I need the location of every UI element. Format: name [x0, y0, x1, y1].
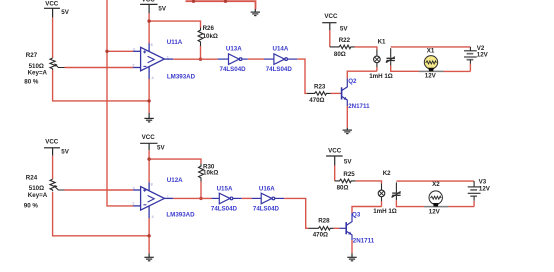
- op-amp U11A: [133, 43, 173, 79]
- svg-text:5V: 5V: [344, 159, 352, 166]
- svg-text:4: 4: [152, 215, 154, 219]
- svg-text:U11A: U11A: [167, 39, 183, 46]
- svg-text:80Ω: 80Ω: [334, 51, 346, 58]
- wire U16A output to R28: [284, 198, 308, 228]
- svg-text:R28: R28: [318, 217, 330, 224]
- wire R23 to Q2 base: [331, 92, 341, 94]
- relay K2 contact: [392, 182, 401, 200]
- svg-text:470Ω: 470Ω: [309, 97, 324, 104]
- svg-text:Key=A: Key=A: [28, 69, 48, 76]
- wire VCC3 to R22: [329, 30, 331, 47]
- svg-text:R27: R27: [26, 52, 38, 59]
- power VCC6 (R25 supply): [326, 156, 343, 166]
- svg-text:8: 8: [151, 43, 153, 47]
- svg-text:5V: 5V: [158, 6, 166, 13]
- svg-text:Q2: Q2: [348, 78, 357, 85]
- svg-text:R25: R25: [343, 171, 355, 178]
- wire lamp X2 to V3 bottom: [448, 206, 474, 208]
- wire K1 contact bottom to lamp: [391, 66, 419, 72]
- lamp X2: [424, 206, 449, 208]
- wire R28 to Q3 base: [334, 227, 340, 229]
- wire U11A pin3 stub from bus: [107, 50, 133, 52]
- ground under U11A pin4: [148, 79, 150, 113]
- wire VCC6 to R25: [334, 166, 336, 181]
- svg-text:12V: 12V: [477, 52, 489, 59]
- svg-text:12V: 12V: [429, 208, 441, 215]
- power VCC4 (R24 supply): [44, 148, 60, 156]
- potentiometer R24: [50, 179, 65, 191]
- relay K1 contact: [386, 48, 395, 65]
- power VCC2 (U11A supply, clipped at top): [140, 4, 157, 13]
- inverter U15A: [212, 193, 242, 204]
- battery V3: [468, 181, 481, 201]
- node junction R26/output: [199, 58, 202, 61]
- inverter U14A: [264, 54, 297, 65]
- transistor Q2: [340, 79, 347, 107]
- ground symbol U11A: [144, 113, 153, 122]
- svg-text:470Ω: 470Ω: [313, 232, 328, 239]
- contact K1 arrowhead: [386, 61, 389, 63]
- svg-text:V3: V3: [479, 179, 487, 186]
- ground symbol U12A: [144, 253, 153, 260]
- resistor R26: [198, 28, 203, 47]
- wire R27 wiper to U11A pin2: [65, 67, 134, 69]
- wire VCC2 branch to R26 top: [149, 21, 200, 27]
- svg-text:R26: R26: [203, 25, 215, 32]
- wire VCC5 down to U12A pin8: [148, 150, 150, 182]
- wire U15A to U16A: [242, 197, 252, 199]
- resistor R23: [307, 92, 331, 96]
- node junction VCC2/R26: [147, 19, 150, 22]
- wire VCC5 branch to R30 top: [149, 159, 201, 163]
- wire U14A output to R23: [297, 59, 307, 93]
- svg-text:Key=A: Key=A: [28, 192, 48, 199]
- svg-text:1: 1: [167, 56, 169, 60]
- wire Q2 collector to K1 coil: [347, 71, 377, 78]
- svg-text:VCC: VCC: [45, 139, 59, 146]
- ground under Q3: [347, 253, 356, 260]
- relay K1 coil: [374, 50, 381, 68]
- wire VCC2 down to U11A pin8: [148, 13, 150, 43]
- svg-text:R23: R23: [314, 84, 326, 91]
- lamp X1: [419, 70, 444, 72]
- transistor Q3: [340, 213, 353, 240]
- svg-text:1mH 1Ω: 1mH 1Ω: [373, 208, 397, 215]
- op-amp U12A: [133, 182, 173, 218]
- ground under U12A pin4: [148, 218, 150, 253]
- svg-text:K1: K1: [378, 38, 386, 45]
- resistor R25: [335, 179, 356, 183]
- svg-text:2: 2: [132, 202, 134, 206]
- svg-text:3: 3: [133, 186, 135, 190]
- contact K2 arrowhead: [391, 195, 394, 197]
- wire R24 wiper to U12A pin3: [65, 189, 134, 191]
- node junction top edge b: [224, 0, 227, 3]
- wire R24 bottom to ground rail: [53, 192, 150, 236]
- svg-text:1: 1: [167, 195, 169, 199]
- svg-text:U15A: U15A: [217, 186, 233, 193]
- node input bus (vertical wire from top edge to U12A pin2): [107, 0, 133, 206]
- lamp X2 base: [433, 203, 438, 207]
- wire U13A to U14A: [248, 58, 264, 60]
- node junction top edge a: [192, 0, 195, 3]
- relay K2 coil: [378, 183, 385, 201]
- svg-text:Q3: Q3: [352, 212, 361, 219]
- power VCC3 (R22 supply): [322, 23, 336, 30]
- wire Q2 emitter down: [346, 106, 348, 128]
- svg-text:VCC: VCC: [45, 1, 59, 8]
- wire R22 to K1 coil top: [355, 47, 377, 50]
- power VCC5 (U12A supply): [140, 143, 157, 150]
- svg-text:X1: X1: [427, 47, 435, 54]
- wire Q3 emitter down: [351, 240, 353, 253]
- wire VCC1 to R27 top: [52, 18, 54, 58]
- svg-text:X2: X2: [432, 181, 440, 188]
- wire K1 coil bottom to collector rail: [376, 67, 378, 71]
- svg-text:2N1711: 2N1711: [353, 238, 375, 245]
- svg-text:VCC: VCC: [142, 134, 156, 141]
- resistor R22: [330, 45, 355, 49]
- svg-text:4: 4: [152, 76, 154, 80]
- svg-text:12V: 12V: [479, 186, 491, 193]
- wire U12A output to U15A input: [173, 197, 211, 199]
- node junction bus/pin3: [105, 50, 108, 53]
- svg-text:80Ω: 80Ω: [337, 185, 349, 192]
- ground top edge: [251, 9, 260, 16]
- svg-text:80 %: 80 %: [24, 79, 39, 86]
- svg-text:74LS04D: 74LS04D: [266, 66, 293, 73]
- node junction R30/output: [199, 197, 202, 200]
- svg-text:LM393AD: LM393AD: [166, 212, 195, 219]
- wire K2 contact bottom to lamp X2: [396, 200, 424, 206]
- inverter U16A: [252, 193, 285, 204]
- svg-text:R22: R22: [339, 37, 351, 44]
- svg-text:74LS04D: 74LS04D: [220, 66, 247, 73]
- svg-text:2N1711: 2N1711: [348, 103, 370, 110]
- wire R26 bottom to U11A output: [200, 46, 202, 59]
- svg-text:74LS04D: 74LS04D: [253, 205, 280, 212]
- svg-text:510Ω: 510Ω: [29, 185, 44, 192]
- svg-text:K2: K2: [383, 170, 391, 177]
- svg-text:VCC: VCC: [328, 148, 342, 155]
- svg-text:VCC: VCC: [142, 0, 156, 3]
- svg-text:90 %: 90 %: [24, 203, 39, 210]
- power VCC1 (R27 supply): [44, 8, 60, 17]
- potentiometer R27: [50, 58, 65, 70]
- svg-text:10kΩ: 10kΩ: [203, 33, 218, 40]
- svg-text:5V: 5V: [157, 145, 165, 152]
- wire VCC4 to R24 top: [52, 156, 54, 180]
- wire V2 bottom: [469, 64, 471, 72]
- resistor R30: [199, 164, 204, 182]
- svg-text:5V: 5V: [61, 149, 69, 156]
- svg-text:VCC: VCC: [324, 13, 338, 20]
- battery V2: [464, 47, 477, 64]
- node junction pin4/pot R24 ground: [147, 234, 150, 237]
- wire R25 to K2 coil top: [355, 181, 381, 184]
- wire R30 bottom to U12A output: [200, 182, 202, 199]
- wire K2 coil bottom to collector rail: [381, 201, 383, 207]
- wire U11A output to U13A input: [173, 58, 217, 60]
- svg-text:12V: 12V: [425, 73, 437, 80]
- wire K2 contact top to V3: [396, 180, 474, 182]
- svg-text:U14A: U14A: [273, 46, 289, 53]
- svg-text:74LS04D: 74LS04D: [211, 205, 238, 212]
- ground under Q2: [343, 128, 352, 134]
- pot R27 wiper arrowhead: [54, 63, 57, 66]
- svg-text:8: 8: [151, 182, 153, 186]
- lamp X1 base: [428, 68, 433, 72]
- pot R24 wiper arrowhead: [54, 185, 57, 188]
- svg-text:U13A: U13A: [226, 46, 242, 53]
- svg-text:2: 2: [132, 63, 134, 67]
- transistor Q3 emitter arrowhead: [348, 232, 351, 235]
- svg-text:3: 3: [133, 48, 135, 52]
- svg-text:LM393AD: LM393AD: [167, 74, 196, 81]
- node junction pin4/pot ground: [147, 99, 150, 102]
- svg-text:1mH 1Ω: 1mH 1Ω: [369, 73, 393, 80]
- wire V3 bottom: [473, 201, 475, 207]
- wire R27 bottom to ground rail: [53, 70, 150, 101]
- svg-text:U12A: U12A: [167, 177, 183, 184]
- resistor R28: [308, 227, 333, 231]
- node junction VCC5/R30: [147, 157, 150, 160]
- svg-text:10kΩ: 10kΩ: [203, 170, 218, 177]
- wire lamp X1 to V2 bottom: [444, 70, 471, 72]
- inverter U13A: [217, 54, 247, 65]
- wire top edge net: [186, 1, 256, 9]
- svg-text:5V: 5V: [61, 9, 69, 16]
- transistor Q2 emitter arrowhead: [344, 97, 347, 100]
- svg-text:R24: R24: [26, 174, 38, 181]
- svg-text:U16A: U16A: [259, 186, 275, 193]
- wire K1 contact top to V2: [391, 46, 471, 48]
- svg-text:5V: 5V: [340, 25, 348, 32]
- wire Q3 collector to K2 coil: [352, 207, 382, 214]
